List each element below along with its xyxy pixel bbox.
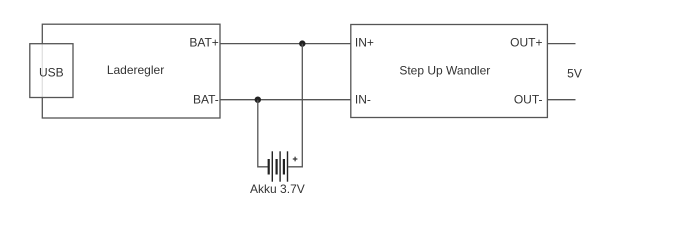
wire battery positive drop — [288, 44, 302, 167]
wire BAT+ to IN+ — [220, 43, 351, 45]
svg-text:Laderegler: Laderegler — [107, 63, 164, 77]
svg-text:5V: 5V — [567, 67, 582, 81]
block USB connector — [30, 44, 73, 98]
svg-text:IN+: IN+ — [355, 36, 374, 50]
node BAT+ junction — [299, 40, 305, 46]
block Step Up Wandler (boost converter) — [351, 25, 548, 118]
battery BT1 Akku 3.7V plates — [269, 151, 288, 181]
svg-text:OUT-: OUT- — [514, 92, 543, 106]
wire OUT+ stub — [547, 43, 575, 45]
svg-text:USB: USB — [39, 65, 64, 79]
wire OUT- stub — [547, 99, 575, 101]
node BAT- junction — [255, 97, 261, 103]
svg-text:Akku 3.7V: Akku 3.7V — [250, 182, 305, 196]
svg-text:IN-: IN- — [355, 92, 371, 106]
wire battery negative drop — [258, 100, 269, 167]
svg-text:BAT-: BAT- — [193, 92, 219, 106]
svg-text:Step Up Wandler: Step Up Wandler — [399, 64, 490, 78]
block Laderegler (charge controller) — [42, 24, 220, 118]
wire BAT- to IN- — [220, 99, 351, 101]
label + polarity of battery — [293, 157, 298, 162]
svg-text:BAT+: BAT+ — [189, 36, 218, 50]
svg-text:OUT+: OUT+ — [510, 36, 542, 50]
